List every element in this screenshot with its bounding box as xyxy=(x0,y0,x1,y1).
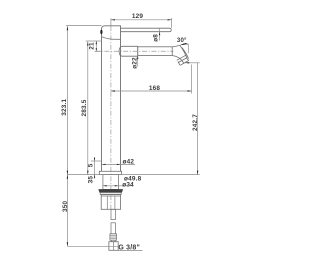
G3/8 label underline xyxy=(118,249,143,251)
lever handle xyxy=(121,28,172,32)
283.5 top arrow xyxy=(87,42,88,46)
dimension 242.7 line xyxy=(197,63,199,175)
svg-text:ø42: ø42 xyxy=(123,158,135,165)
dimension 129 line xyxy=(111,19,172,21)
threaded rod lower segment xyxy=(111,223,115,234)
counter plane extension line xyxy=(67,174,199,176)
21 bottom arrow xyxy=(96,48,97,51)
30 degree vertical reference xyxy=(187,44,189,54)
350 top arrow xyxy=(67,175,68,179)
body centerline xyxy=(110,26,112,210)
diameter-34 right arrow xyxy=(115,185,119,186)
323.1 bottom arrow xyxy=(67,171,68,175)
30 degree angle arc xyxy=(180,44,188,45)
svg-text:168: 168 xyxy=(149,85,161,92)
svg-text:G 3/8": G 3/8" xyxy=(118,245,140,252)
diameter-22 arrow xyxy=(137,56,138,60)
svg-text:ø34: ø34 xyxy=(122,182,134,189)
svg-text:5: 5 xyxy=(87,163,94,167)
dimension 168 line xyxy=(111,90,192,92)
dimension 323.1 and 350 shared line xyxy=(66,26,68,246)
collar ridge 3 xyxy=(110,238,117,240)
spout nose peak line xyxy=(172,45,180,47)
dimension 21 line xyxy=(95,41,97,51)
168 right arrow xyxy=(188,90,192,91)
21 top arrow xyxy=(96,41,97,44)
G3/8 nut facet xyxy=(113,242,115,251)
svg-text:283.5: 283.5 xyxy=(81,99,88,116)
svg-text:323.1: 323.1 xyxy=(61,99,68,116)
svg-text:ø8: ø8 xyxy=(152,34,159,42)
dimension 129 left arrow xyxy=(111,19,115,20)
nut facet left xyxy=(106,196,108,209)
svg-text:21: 21 xyxy=(88,42,95,50)
svg-text:129: 129 xyxy=(132,13,144,20)
21 bottom extension xyxy=(95,50,101,52)
diameter-34 left arrow xyxy=(103,185,107,186)
283.5 and 21 shared top extension xyxy=(86,40,101,42)
aerator outer side xyxy=(187,59,189,61)
30 degree arc right arrow xyxy=(185,43,189,45)
base flange xyxy=(99,171,121,174)
dimension 283.5 line xyxy=(87,42,89,175)
lever pivot pin xyxy=(100,30,102,34)
faucet body column xyxy=(102,26,121,172)
aerator joint line 2 xyxy=(178,58,187,63)
svg-text:ø22: ø22 xyxy=(131,57,138,69)
aerator joint line 1 xyxy=(177,55,186,60)
diameter-42 right arrow xyxy=(117,164,121,165)
spout nose upper edge xyxy=(180,45,187,58)
aerator outlet face xyxy=(180,61,189,66)
hose crimp collar xyxy=(110,234,117,240)
spout boss xyxy=(119,46,138,56)
svg-text:350: 350 xyxy=(62,200,69,212)
35.5 top extension xyxy=(91,160,102,162)
collar ridge 2 xyxy=(110,236,117,238)
connector neck xyxy=(111,240,115,242)
spout centerline xyxy=(95,50,174,52)
283.5 bottom arrow xyxy=(87,171,88,175)
dimension 129 right arrow xyxy=(168,19,172,20)
washer xyxy=(100,193,121,195)
diameter-8 leader line xyxy=(159,28,161,40)
242.7 top arrow pointing at spout outlet xyxy=(185,62,189,63)
aerator inner side xyxy=(178,62,180,66)
dimension diameter-34 line xyxy=(103,185,132,187)
323.1 top extension xyxy=(66,24,102,26)
168 right extension from spout outlet xyxy=(191,65,193,94)
350 bottom arrow xyxy=(67,242,68,246)
dimension 129 right extension xyxy=(171,18,173,28)
svg-text:35: 35 xyxy=(87,176,94,184)
diameter-42 left arrow xyxy=(102,164,106,165)
dimension diameter-42 line xyxy=(102,163,135,165)
mounting nut xyxy=(101,195,120,210)
242.7 bottom arrow xyxy=(197,171,198,175)
G3/8 extension line xyxy=(67,245,118,247)
nut top washer line xyxy=(101,195,120,197)
svg-text:30°: 30° xyxy=(177,37,187,44)
svg-text:242.7: 242.7 xyxy=(192,114,199,131)
diameter-8 arrow xyxy=(159,32,160,36)
dimension 35.5 line xyxy=(94,157,96,179)
rubber gasket xyxy=(99,189,123,192)
head parting line xyxy=(102,37,121,40)
nut facet right xyxy=(114,196,116,209)
168 left arrow xyxy=(111,90,115,91)
threaded rod upper segment xyxy=(111,209,115,219)
323.1 top arrow xyxy=(67,26,68,30)
under-counter shank xyxy=(103,175,119,190)
G3/8 nut xyxy=(109,242,118,251)
35.5 bottom arrow xyxy=(94,175,95,178)
242.7 top extension xyxy=(185,62,200,64)
spout bend outer curve xyxy=(172,56,184,64)
35.5 top arrow xyxy=(94,158,95,161)
spout nose inner silhouette xyxy=(182,48,189,59)
30 degree arc left arrow xyxy=(180,43,184,45)
dimension 129 left extension xyxy=(110,18,112,25)
spout tube xyxy=(138,47,173,56)
collar ridge 1 xyxy=(110,234,117,236)
diameter-22 leader line xyxy=(137,46,139,66)
